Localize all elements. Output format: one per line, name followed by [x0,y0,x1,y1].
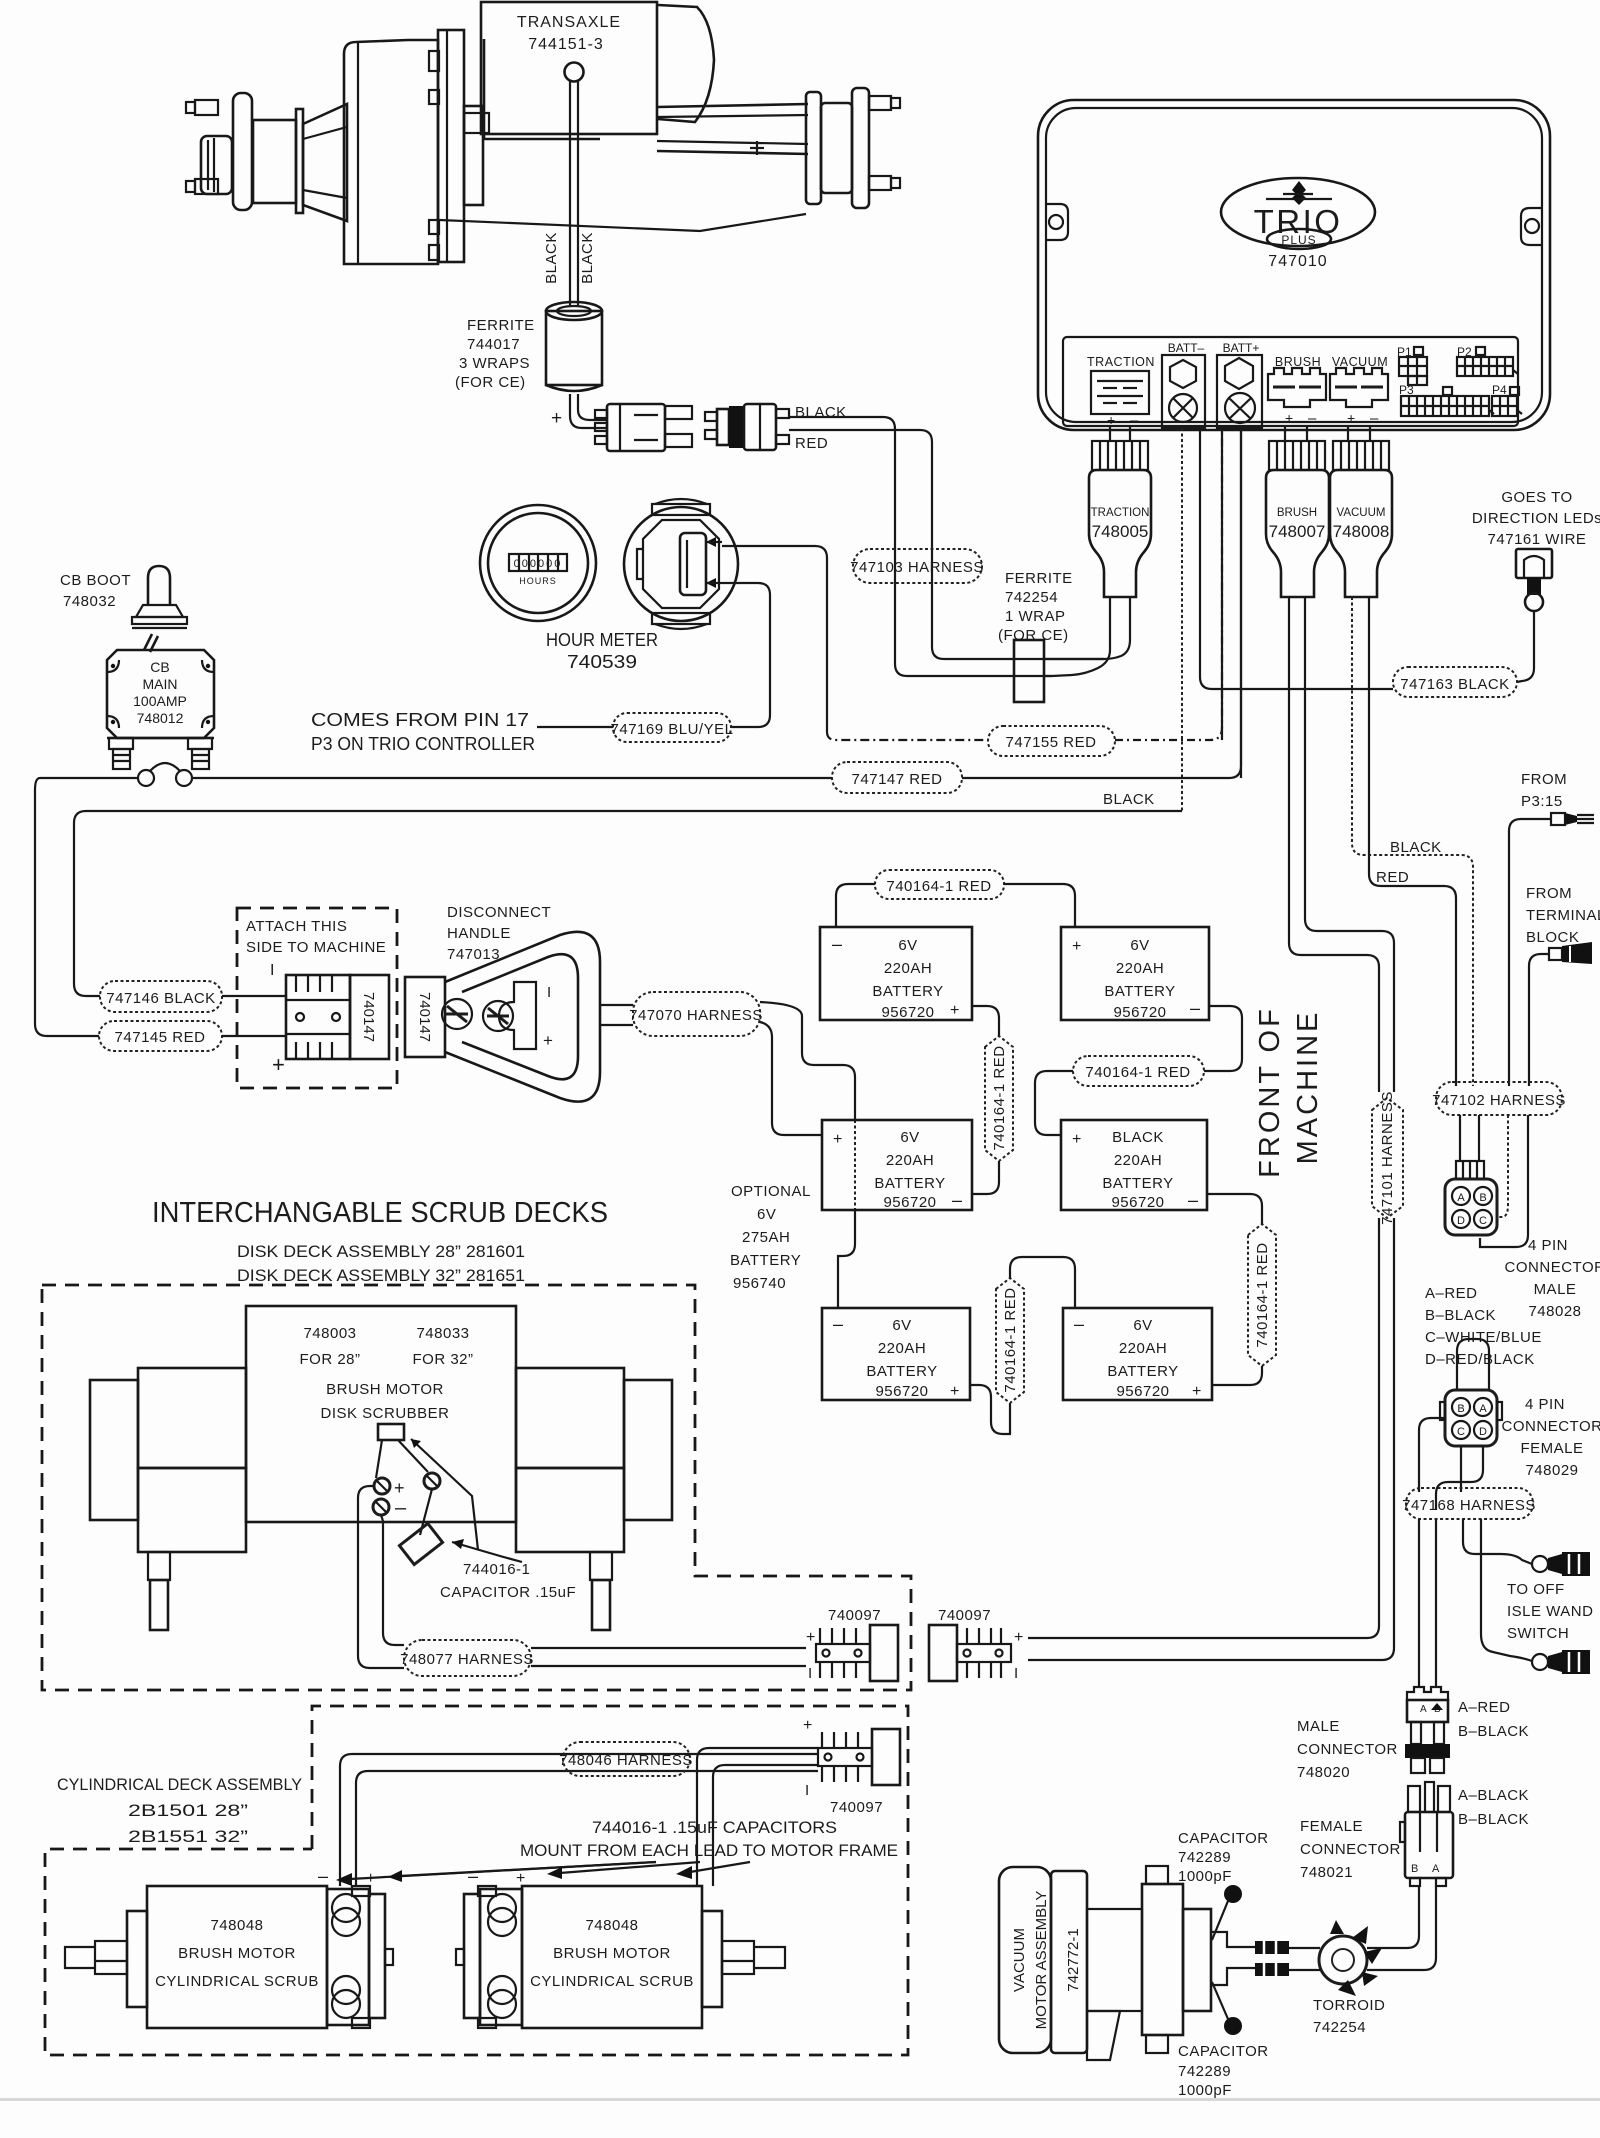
label BLACK vacuum lead [1390,839,1442,856]
svg-text:BLACK: BLACK [543,232,560,284]
svg-text:747163 BLACK: 747163 BLACK [1400,676,1509,693]
svg-text:A: A [1420,1704,1427,1715]
wire BATT- black run [74,791,1182,996]
svg-text:I: I [270,962,274,979]
svg-text:BLACK: BLACK [1390,839,1442,856]
wire label pill 747070 HARNESS [629,992,763,1036]
svg-text:2B1551 32”: 2B1551 32” [128,1827,248,1846]
svg-text:COMES FROM PIN 17: COMES FROM PIN 17 [311,710,529,730]
wire label pill 748046 HARNESS [559,1742,693,1776]
female connector 748021 [1400,1782,1453,1886]
svg-text:FERRITE: FERRITE [467,317,535,334]
svg-text:+: + [1285,410,1293,426]
label RED vacuum lead [1376,869,1409,886]
svg-text:6V: 6V [898,937,917,954]
capacitor lead terminal [411,1439,478,1550]
CB boot toggle [132,566,187,652]
motor housing behind label [484,39,600,139]
svg-text:DISK DECK ASSEMBLY 28” 281601: DISK DECK ASSEMBLY 28” 281601 [237,1242,525,1261]
spade terminal wand upper [1532,1552,1590,1576]
traction plug 748005 [1089,441,1151,597]
svg-text:BATTERY: BATTERY [730,1252,801,1269]
svg-text:000000: 000000 [514,558,563,570]
ferrite 742254 note [998,570,1073,644]
svg-text:220AH: 220AH [1119,1340,1167,1357]
svg-text:748029: 748029 [1525,1462,1578,1479]
leader arrows capacitors [336,1862,750,1886]
svg-text:DISCONNECT: DISCONNECT [447,904,551,921]
svg-text:740164-1 RED: 740164-1 RED [1085,1064,1190,1081]
svg-text:744151-3: 744151-3 [528,36,604,53]
svg-text:FOR 28”: FOR 28” [299,1351,360,1368]
wire traction plug leads [1052,597,1130,676]
svg-text:748020: 748020 [1297,1764,1350,1781]
svg-text:956720: 956720 [881,1004,934,1021]
svg-text:+: + [1347,410,1355,426]
wire B2- to B4+ with pill 740164-1 RED [1035,1006,1242,1135]
svg-text:FROM: FROM [1521,771,1567,788]
wire 747070 to B3+ [760,1022,822,1135]
svg-text:748032: 748032 [63,593,116,610]
wire label pill 747147 RED [832,430,1241,793]
vacuum plug 748008 [1330,441,1392,597]
svg-text:BRUSH MOTOR: BRUSH MOTOR [326,1381,444,1398]
svg-text:B: B [1411,1863,1418,1875]
svg-text:220AH: 220AH [878,1340,926,1357]
svg-text:–: – [833,1314,843,1334]
svg-text:CONNECTOR: CONNECTOR [1300,1841,1401,1858]
motor terminal plus [374,1478,405,1498]
right hub [806,88,869,208]
svg-text:MOUNT FROM EACH LEAD TO MOTOR: MOUNT FROM EACH LEAD TO MOTOR FRAME [520,1841,898,1860]
note to off isle wand switch [1507,1581,1593,1642]
svg-text:6V: 6V [1133,1317,1152,1334]
svg-text:956720: 956720 [883,1194,936,1211]
svg-text:748003: 748003 [303,1325,356,1342]
svg-text:742289: 742289 [1178,2063,1231,2080]
wire label pill 747146 BLACK [100,981,286,1012]
svg-text:D: D [1479,1426,1487,1438]
toroid 742254 [1319,1920,1382,1996]
title interchangable scrub decks [152,1197,608,1285]
wire label pill 747101 HARNESS vertical [1372,1091,1403,1225]
svg-text:BRUSH MOTOR: BRUSH MOTOR [178,1945,296,1962]
svg-text:748046 HARNESS: 748046 HARNESS [559,1752,693,1769]
svg-text:1000pF: 1000pF [1178,2082,1232,2099]
note capacitor value [440,1561,576,1601]
svg-text:BATTERY: BATTERY [874,1175,945,1192]
cylindrical brush motor right [456,1866,785,2028]
svg-text:B–BLACK: B–BLACK [1425,1307,1496,1324]
svg-text:FROM: FROM [1526,885,1572,902]
svg-text:HOURS: HOURS [519,576,557,586]
svg-text:740147: 740147 [416,992,433,1042]
svg-text:740164-1 RED: 740164-1 RED [991,1045,1008,1150]
disk brush motor right [516,1368,672,1630]
spade terminal wand lower [1532,1650,1590,1674]
disk scrubber label box [246,1306,516,1522]
svg-text:BRUSH MOTOR: BRUSH MOTOR [553,1945,671,1962]
connector 740147 machine half [286,975,389,1059]
svg-text:740164-1 RED: 740164-1 RED [1002,1287,1019,1392]
note 4 pin connector male [1505,1237,1600,1320]
breaker symbol contacts [138,763,192,786]
ferrite 744017 cylinder [546,302,602,391]
svg-text:747103 HARNESS: 747103 HARNESS [850,559,984,576]
wire left cyl motor to harness [340,1754,818,1886]
svg-text:748077 HARNESS: 748077 HARNESS [400,1651,534,1668]
4 pin connector female 748029 [1440,1339,1502,1446]
note female pins [1458,1787,1529,1828]
direction LED note [1472,489,1600,548]
svg-text:+: + [1192,1383,1201,1400]
wire LED to 747163 [1517,611,1534,682]
male connector 748020 [1405,1687,1450,1773]
svg-text:DIRECTION LEDs: DIRECTION LEDs [1472,510,1600,527]
svg-text:TORROID: TORROID [1313,1997,1385,2014]
svg-text:BATT+: BATT+ [1223,341,1260,355]
svg-text:CONNECTOR: CONNECTOR [1297,1741,1398,1758]
svg-text:BRUSH: BRUSH [1277,507,1317,519]
svg-text:VACUUM: VACUUM [1337,507,1386,519]
svg-text:747070 HARNESS: 747070 HARNESS [629,1007,763,1024]
svg-text:CYLINDRICAL SCRUB: CYLINDRICAL SCRUB [530,1973,694,1990]
right axle tube [657,104,808,155]
svg-text:TERMINAL: TERMINAL [1526,907,1600,924]
brush output connector [1268,355,1326,427]
right motor end bell [658,5,714,122]
svg-text:956720: 956720 [1111,1194,1164,1211]
svg-text:3 WRAPS: 3 WRAPS [459,355,530,372]
P2 connector grid [1457,345,1518,376]
note 4 pin connector female [1502,1396,1600,1479]
ferrite 744017 label [455,317,535,391]
svg-text:PLUS: PLUS [1281,233,1316,247]
svg-text:INTERCHANGABLE SCRUB DECKS: INTERCHANGABLE SCRUB DECKS [152,1197,608,1229]
wire label pill 748077 HARNESS [400,1640,806,1676]
svg-text:748005: 748005 [1092,522,1149,541]
wire label pill 747155 RED [827,430,1222,756]
right hub bolts [869,96,900,190]
svg-text:BATTERY: BATTERY [872,983,943,1000]
svg-text:+: + [272,1052,285,1077]
note comes from pin 17 [311,710,535,754]
wire female 4pin to 747168 [1419,1418,1483,1510]
transaxle assembly 744151-3 [186,2,900,452]
CB boot label [60,572,131,610]
wire transaxle black lead [789,417,1052,676]
controller mounting ear right [1521,208,1542,245]
svg-text:+: + [806,1629,815,1646]
svg-text:TRACTION: TRACTION [1087,355,1155,369]
note female connector 748021 [1300,1818,1401,1881]
label BLACK wire [795,404,847,421]
connector 740097 cylindrical deck [803,1717,900,1816]
svg-text:747013: 747013 [447,946,500,963]
svg-text:TO OFF: TO OFF [1507,1581,1565,1598]
wire terminals to toroid [1289,1948,1320,1970]
svg-text:6V: 6V [892,1317,911,1334]
wire 747102 to 4pin male [1460,1115,1528,1247]
svg-text:748007: 748007 [1269,522,1326,541]
svg-text:1000pF: 1000pF [1178,1868,1232,1885]
battery B3 956720 [822,1120,972,1211]
svg-text:747101 HARNESS: 747101 HARNESS [1379,1091,1396,1225]
wire hour meter lower [722,583,770,727]
wire B5+ to B6- with pill 740164-1 RED vertical [970,1257,1075,1434]
svg-text:BLACK: BLACK [795,404,847,421]
svg-text:ATTACH THIS: ATTACH THIS [246,918,347,935]
svg-text:FEMALE: FEMALE [1300,1818,1363,1835]
svg-text:I: I [1014,1665,1018,1682]
wire B1+ to B3- with pill 740164-1 RED vertical [972,1006,1013,1194]
svg-text:CONNECTOR: CONNECTOR [1505,1259,1600,1276]
svg-text:BLACK: BLACK [579,232,596,284]
capacitor 742289 top [1178,1830,1269,1940]
svg-text:748048: 748048 [585,1917,638,1934]
wire 747070 to B5- through B3 [760,1002,855,1308]
svg-text:6V: 6V [900,1129,919,1146]
svg-text:ISLE WAND: ISLE WAND [1507,1603,1593,1620]
svg-text:P3:15: P3:15 [1521,793,1563,810]
vacuum motor body [1087,1866,1255,2060]
battery B2 956720 [1061,927,1209,1021]
wire brush plug leads [1289,597,1394,1092]
controller part number 747010 [1268,253,1327,270]
svg-text:MALE: MALE [1534,1281,1577,1298]
svg-text:P3: P3 [1399,383,1414,397]
svg-text:B–BLACK: B–BLACK [1458,1811,1529,1828]
direction LED connector 747161 [1516,549,1552,611]
svg-text:HANDLE: HANDLE [447,925,511,942]
svg-text:BLACK: BLACK [1103,791,1155,808]
terminal from terminal block [1529,942,1592,1086]
wire label pill 747163 BLACK [1393,667,1517,697]
svg-text:+: + [950,1383,959,1400]
svg-text:747102 HARNESS: 747102 HARNESS [1432,1092,1566,1109]
svg-text:OPTIONAL: OPTIONAL [731,1183,811,1200]
svg-text:100AMP: 100AMP [133,693,187,709]
TRIO logo [1221,178,1375,249]
note male pins [1458,1699,1529,1740]
svg-text:–: – [1074,1314,1084,1334]
disk deck dashed boundary [42,1285,911,1690]
battery B4 956720 BLACK [1061,1120,1207,1211]
svg-text:DISK SCRUBBER: DISK SCRUBBER [320,1405,449,1422]
vacuum motor terminal lower [1255,1963,1289,1976]
gearbox flange plates [429,30,489,262]
svg-text:+: + [543,1031,553,1050]
wire label pill 747145 RED [99,1021,286,1051]
traction terminal icon [1087,355,1155,429]
svg-text:2B1501 28”: 2B1501 28” [128,1801,248,1820]
svg-text:956720: 956720 [1116,1383,1169,1400]
svg-text:747155 RED: 747155 RED [1006,734,1097,751]
svg-text:A: A [1479,1403,1487,1415]
svg-text:748033: 748033 [416,1325,469,1342]
svg-text:CYLINDRICAL SCRUB: CYLINDRICAL SCRUB [155,1973,319,1990]
wire breaker to BATT+ [40,777,832,779]
TRIO controller 747010 enclosure [1038,100,1550,430]
svg-text:TRACTION: TRACTION [1091,507,1150,519]
svg-text:+: + [551,408,562,429]
svg-text:+: + [1014,1629,1023,1646]
svg-text:744017: 744017 [467,336,520,353]
wire vacuum plug leads [1352,597,1473,1086]
svg-text:744016-1 .15uF CAPACITORS: 744016-1 .15uF CAPACITORS [592,1818,837,1837]
svg-text:P3 ON TRIO CONTROLLER: P3 ON TRIO CONTROLLER [311,734,535,754]
svg-text:CB: CB [150,659,169,675]
svg-text:220AH: 220AH [886,1152,934,1169]
svg-text:–: – [318,1866,328,1886]
controller terminal panel [1063,337,1518,426]
svg-text:–: – [395,1497,407,1519]
svg-text:740097: 740097 [830,1799,883,1816]
svg-text:FERRITE: FERRITE [1005,570,1073,587]
svg-text:(FOR CE): (FOR CE) [998,627,1069,644]
svg-text:742772-1: 742772-1 [1065,1928,1082,1991]
svg-text:RED: RED [1376,869,1409,886]
wire handle to 747070 [600,1005,633,1025]
note cylindrical deck assembly [57,1775,302,1846]
note toroid [1313,1997,1385,2036]
svg-text:–: – [952,1190,962,1210]
svg-text:A–BLACK: A–BLACK [1458,1787,1529,1804]
svg-text:FEMALE: FEMALE [1520,1440,1583,1457]
disconnect handle note [447,904,551,963]
svg-text:–: – [1308,410,1317,427]
connector 740097 deck half [806,1607,898,1682]
svg-text:+: + [1072,1131,1081,1148]
note pin colors [1425,1285,1542,1368]
svg-text:748028: 748028 [1528,1303,1581,1320]
svg-text:740164-1 RED: 740164-1 RED [1254,1242,1271,1347]
hour meter 740539 face [480,505,596,621]
lower support rod [440,214,806,231]
wire hour meter upper [722,546,827,732]
svg-text:D: D [1457,1215,1465,1227]
note from P3:15 [1521,771,1567,810]
svg-text:P4: P4 [1492,383,1507,397]
svg-text:956720: 956720 [875,1383,928,1400]
svg-text:748048: 748048 [210,1917,263,1934]
wire 740097 to brush leads [1028,1218,1394,1660]
svg-text:RED: RED [795,435,828,452]
hour meter 740539 rear [624,499,738,629]
svg-text:B–BLACK: B–BLACK [1458,1723,1529,1740]
svg-text:CB BOOT: CB BOOT [60,572,131,589]
cylindrical brush motor left [65,1866,393,2028]
svg-text:BATT–: BATT– [1168,341,1205,355]
svg-text:MALE: MALE [1297,1718,1340,1735]
battery B5 956720 [822,1308,970,1400]
connector 740097 machine half [929,1607,1023,1682]
disconnect handle 747013 [442,932,600,1102]
svg-text:(FOR CE): (FOR CE) [455,374,526,391]
svg-text:–: – [1188,1190,1198,1210]
P3 connector grid [1399,383,1494,416]
svg-text:740164-1 RED: 740164-1 RED [886,878,991,895]
svg-text:747168 HARNESS: 747168 HARNESS [1402,1497,1536,1514]
wire BATT- lead pair [1182,428,1393,811]
vacuum output connector [1330,355,1388,427]
svg-text:747169 BLU/YEL: 747169 BLU/YEL [611,721,734,738]
wire label BLACK vertical 1 [543,232,560,284]
transaxle label box [481,2,657,134]
svg-text:BATTERY: BATTERY [1102,1175,1173,1192]
svg-text:956740: 956740 [733,1275,786,1292]
svg-text:C: C [1479,1215,1487,1227]
capacitor 744016-1 body [399,1523,522,1564]
svg-text:–: – [1370,410,1379,427]
transaxle connector half A [595,404,692,451]
scan artifact band [0,2098,1600,2101]
svg-text:BLACK: BLACK [1112,1129,1164,1146]
svg-text:C–WHITE/BLUE: C–WHITE/BLUE [1425,1329,1542,1346]
wire note to pin17 [537,726,613,728]
svg-text:+: + [1107,412,1115,428]
left hub [201,93,303,213]
svg-text:4 PIN: 4 PIN [1528,1237,1568,1254]
svg-text:747010: 747010 [1268,253,1327,270]
svg-text:MAIN: MAIN [143,676,178,692]
P1 connector grid [1397,345,1427,385]
svg-text:740097: 740097 [828,1607,881,1624]
wire label pill 747168 HARNESS [1402,1488,1536,1519]
wire panel to plugs [1110,426,1370,441]
note cylindrical capacitors [520,1818,898,1860]
svg-text:1 WRAP: 1 WRAP [1005,608,1066,625]
svg-text:BATTERY: BATTERY [1104,983,1175,1000]
svg-text:TRANSAXLE: TRANSAXLE [517,14,621,31]
svg-text:220AH: 220AH [1116,960,1164,977]
shift rod ball [565,63,584,306]
svg-text:4 PIN: 4 PIN [1525,1396,1565,1413]
BATT+ terminal [1217,341,1262,428]
svg-text:SWITCH: SWITCH [1507,1625,1569,1642]
4 pin connector male 748028 [1445,1161,1497,1235]
svg-text:BATTERY: BATTERY [1107,1363,1178,1380]
svg-text:747147 RED: 747147 RED [852,771,943,788]
svg-text:740097: 740097 [938,1607,991,1624]
CB MAIN breaker 748012 [107,650,214,738]
wire ferrite to connector [551,394,607,429]
svg-text:B: B [1479,1192,1486,1204]
hour meter label [546,630,658,672]
label RED wire [795,435,828,452]
wire toroid to female connector [1367,1886,1436,1970]
svg-text:VACUUM: VACUUM [1011,1928,1028,1992]
svg-text:–: – [832,934,842,954]
svg-text:CYLINDRICAL DECK ASSEMBLY: CYLINDRICAL DECK ASSEMBLY [57,1775,302,1794]
vacuum motor terminal upper [1255,1941,1289,1954]
svg-text:742254: 742254 [1313,2019,1366,2036]
wire label pill 747102 HARNESS [1432,1082,1566,1115]
svg-text:BLOCK: BLOCK [1526,929,1579,946]
svg-text:–: – [468,1866,478,1886]
capacitor 742289 bottom [1178,1982,1269,2099]
svg-text:–: – [1130,412,1139,429]
vacuum motor assembly label [999,1867,1087,2053]
svg-text:BATTERY: BATTERY [866,1363,937,1380]
svg-text:C: C [1457,1426,1465,1438]
svg-text:+: + [950,1002,959,1019]
svg-text:SIDE TO MACHINE: SIDE TO MACHINE [246,939,386,956]
wire label pill 747169 BLU/YEL [611,713,734,742]
note male connector 748020 [1297,1718,1398,1781]
svg-text:HOUR METER: HOUR METER [546,630,658,650]
svg-text:747146 BLACK: 747146 BLACK [106,990,215,1007]
